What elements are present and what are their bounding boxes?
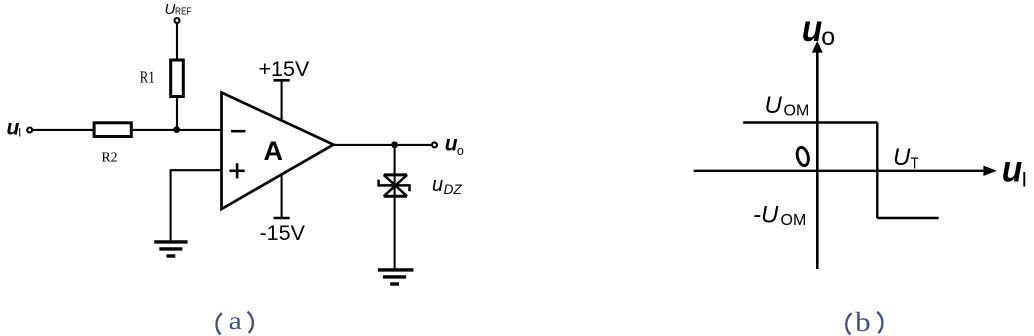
svg-text:A: A: [264, 136, 284, 166]
supply +15V tick: [274, 79, 290, 82]
transfer curve -UOM segment: [877, 217, 938, 219]
resistor R1: [171, 60, 184, 97]
svg-text:OM: OM: [781, 212, 807, 229]
svg-text:REF: REF: [175, 6, 192, 17]
graph horizontal axis uI: [694, 170, 985, 172]
svg-text:o: o: [821, 23, 835, 51]
graph vertical axis uo: [816, 51, 819, 269]
svg-text:a: a: [229, 308, 242, 335]
node B junction dot: [391, 141, 398, 148]
wire node B to zener: [394, 145, 396, 269]
wire op-amp output to uo: [334, 144, 433, 146]
ground G1: [154, 242, 187, 256]
svg-text:U: U: [893, 144, 911, 171]
svg-text:U: U: [765, 92, 783, 119]
svg-text:o: o: [457, 144, 464, 158]
transfer curve drop at UT: [876, 123, 878, 219]
wire -15V supply to op-amp: [281, 174, 283, 218]
caption (b): [846, 312, 882, 335]
ground G2: [378, 270, 414, 284]
origin label O: [795, 146, 810, 167]
svg-text:I: I: [18, 128, 21, 140]
op-amp U1 triangle: [222, 93, 334, 210]
svg-text:T: T: [911, 156, 919, 173]
supply -15V tick: [274, 217, 290, 220]
svg-text:R1: R1: [140, 68, 155, 87]
wire R1 to node A: [176, 98, 178, 130]
op-amp plus sign: [230, 170, 245, 173]
wire noninverting input to ground: [171, 170, 222, 241]
svg-text:+15V: +15V: [259, 57, 310, 81]
svg-text:u: u: [802, 8, 823, 49]
svg-text:u: u: [445, 133, 458, 156]
caption (a): [216, 312, 252, 335]
svg-text:b: b: [855, 307, 871, 336]
svg-text:R2: R2: [102, 151, 118, 166]
terminal uI: [27, 128, 32, 133]
op-amp minus sign: [231, 130, 246, 133]
node A junction dot: [173, 126, 180, 133]
resistor R2: [94, 123, 131, 137]
svg-text:OM: OM: [784, 103, 810, 120]
svg-text:-U: -U: [753, 202, 779, 229]
svg-text:U: U: [165, 1, 176, 18]
svg-text:I: I: [1021, 169, 1027, 192]
wire UREF to R1: [176, 23, 178, 60]
svg-text:u: u: [1002, 149, 1023, 190]
wire uI to R2: [33, 129, 95, 131]
terminal UREF: [175, 18, 180, 23]
transfer curve UOM segment: [743, 121, 877, 123]
wire +15V supply to op-amp: [281, 80, 283, 120]
terminal uo: [432, 142, 437, 147]
zener diode DZ bidirectional: [379, 175, 410, 196]
svg-text:-15V: -15V: [260, 221, 306, 245]
wire R2 to op-amp inverting input: [133, 129, 222, 131]
